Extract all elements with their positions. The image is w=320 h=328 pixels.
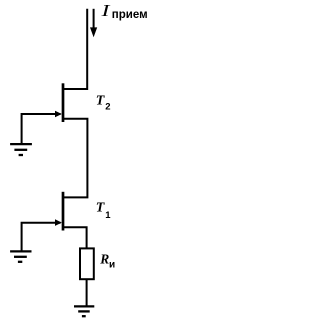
- svg-text:прием: прием: [112, 9, 148, 21]
- svg-text:2: 2: [105, 102, 110, 113]
- svg-text:1: 1: [105, 210, 111, 221]
- svg-text:и: и: [109, 260, 115, 271]
- svg-text:I: I: [100, 2, 110, 20]
- svg-text:R: R: [99, 251, 109, 266]
